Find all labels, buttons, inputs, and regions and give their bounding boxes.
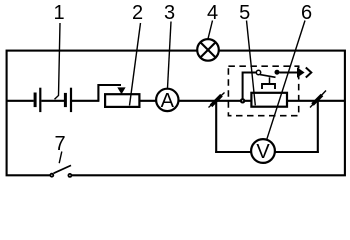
relay moving contact (filled dot) <box>275 70 280 75</box>
voltmeter loop: bottom left run <box>215 151 251 153</box>
lamp cross <box>201 42 216 57</box>
svg-text:V: V <box>256 141 270 163</box>
voltmeter loop: left drop wire <box>215 101 217 153</box>
leader line 4 <box>208 21 213 39</box>
rheostat R (component 2) body <box>105 94 139 107</box>
switch S (component 7) left contact <box>49 173 54 178</box>
relay electromagnet coil rectangle <box>251 93 287 107</box>
leader line 6 <box>267 21 305 140</box>
voltmeter loop: right riser wire <box>317 101 319 153</box>
relay junction node dot <box>240 98 245 103</box>
relay fixed contact (open circle) <box>256 70 260 74</box>
leader line 1 <box>55 23 61 99</box>
wire: coil to right clip corner and to right edge <box>287 100 345 102</box>
leader line 2 <box>130 23 141 106</box>
svg-text:1: 1 <box>53 2 64 24</box>
relay output chevron <box>306 68 312 78</box>
relay armature bracket <box>262 84 275 89</box>
svg-text:4: 4 <box>207 2 218 24</box>
relay armature stub <box>269 77 271 84</box>
svg-text:6: 6 <box>301 2 312 24</box>
relay contact blade <box>260 75 276 78</box>
voltmeter V (component 6) circle <box>251 139 275 163</box>
battery cell 1 positive plate (long thin) <box>39 88 41 112</box>
right probe clip mark <box>310 91 326 108</box>
svg-text:3: 3 <box>164 2 175 24</box>
leader line 3 <box>168 22 172 89</box>
left probe clip mark <box>209 93 225 108</box>
voltmeter loop: bottom right run <box>275 151 319 153</box>
svg-text:5: 5 <box>239 2 250 24</box>
switch right contact <box>68 173 73 178</box>
wire: between battery cells <box>41 100 64 102</box>
svg-text:7: 7 <box>54 133 65 155</box>
wire: middle branch left segment <box>7 100 34 102</box>
relay dashed enclosure (component 5 box) <box>228 66 298 116</box>
battery cell 1 negative plate (short thick) <box>34 93 37 108</box>
wire: rheostat to ammeter <box>139 100 157 102</box>
rheostat slider feed wire (riser and top run) <box>98 85 121 101</box>
relay output arrow (filled triangle) <box>297 67 305 77</box>
relay internal wire: node riser and contact run <box>243 73 257 101</box>
svg-text:A: A <box>161 90 175 112</box>
ammeter A (component 3) circle <box>156 89 178 111</box>
battery cell 2 negative plate (short thick) <box>64 93 67 107</box>
switch blade <box>54 165 72 173</box>
relay internal wire: contact to arrow <box>279 72 297 74</box>
lamp (component 4) circle <box>197 39 219 61</box>
wire: left clip corner into relay box to coil <box>215 100 251 102</box>
wire: battery to rheostat riser <box>72 100 99 102</box>
battery cell 2 positive plate (long thin) <box>70 88 72 112</box>
leader line 7 <box>59 152 62 164</box>
wire: outer rectangle loop <box>7 51 345 176</box>
svg-text:2: 2 <box>132 2 143 24</box>
leader line 5 <box>247 21 256 106</box>
wire: ammeter to left clip corner <box>178 100 217 102</box>
rheostat slider arrowhead <box>117 87 125 94</box>
wire: bottom edge white gap for open switch <box>52 174 70 178</box>
